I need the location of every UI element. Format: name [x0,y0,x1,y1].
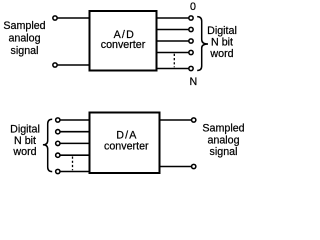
terminal din bit N [56,169,60,173]
D/A converter box U2 [90,113,160,174]
wire input 2 [57,64,89,66]
terminal din bit 2 [56,141,60,145]
brace right } [197,17,208,71]
label Sampled analog signal (input) [3,20,45,57]
terminal output analog 2 [192,164,196,168]
wire output bit 2 [157,40,189,42]
svg-text:N: N [189,76,197,88]
brace left { [43,119,52,171]
wire din bit 3 [60,154,90,156]
label Digital N bit word (top) [207,25,237,60]
ellipsis dashed line (top) [173,54,175,67]
terminal bit 3 [189,50,193,54]
wire output bit N [157,68,189,70]
wire output analog 2 [160,166,192,168]
wire din bit N [60,171,90,173]
terminal bit 0 [189,16,193,20]
svg-text:N bit: N bit [14,135,36,147]
wire din bit 0 [60,119,90,121]
label Sampled analog signal (output) [202,123,244,158]
terminal din bit 3 [56,153,60,157]
wire input 1 [57,17,89,19]
svg-text:word: word [209,48,233,60]
svg-text:Digital: Digital [10,123,40,135]
svg-text:analog: analog [8,33,40,45]
svg-text:Digital: Digital [207,25,237,37]
svg-text:converter: converter [101,39,146,51]
A/D converter box U1 [90,11,157,71]
svg-text:Sampled: Sampled [202,123,244,135]
terminal bit 1 [189,27,193,31]
svg-text:analog: analog [207,134,239,146]
wire output bit 3 [157,52,189,54]
terminal bit N [189,66,193,70]
svg-text:signal: signal [210,146,238,158]
wire din bit 1 [60,131,90,133]
wire din bit 2 [60,142,90,144]
terminal din bit 0 [56,118,60,122]
terminal bit 2 [189,39,193,43]
terminal output analog 1 [192,118,196,122]
terminal din bit 1 [56,130,60,134]
svg-text:N bit: N bit [211,37,233,49]
label Digital N bit word (bottom) [10,123,40,158]
wire output analog 1 [160,119,192,121]
terminal input 1 [53,16,57,20]
wire output bit 1 [157,29,189,31]
svg-text:0: 0 [190,1,196,13]
terminal input 2 [53,63,57,67]
wire output bit 0 [157,17,189,19]
ellipsis dashed line (bottom) [72,157,74,171]
svg-text:signal: signal [11,45,39,57]
svg-text:converter: converter [104,141,149,153]
svg-text:Sampled: Sampled [3,20,45,32]
svg-text:word: word [12,146,36,158]
